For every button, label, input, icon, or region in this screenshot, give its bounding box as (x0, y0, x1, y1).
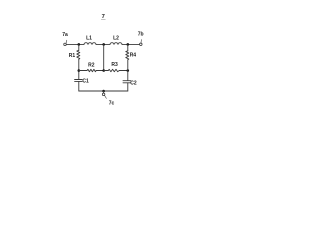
wire node A down to R1 (78, 44, 80, 50)
svg-text:L2: L2 (113, 35, 119, 41)
node C junction (127, 43, 130, 46)
node A junction (78, 43, 81, 46)
wire stub to terminal 7c (103, 91, 105, 93)
node D junction (78, 69, 81, 72)
terminal 7a (62, 32, 68, 38)
wire L1 to L2 (96, 43, 110, 45)
svg-text:R1: R1 (69, 53, 76, 59)
svg-text:C2: C2 (130, 81, 137, 87)
bottom junction (102, 90, 105, 93)
capacitor C2 (130, 81, 137, 87)
resistor R4 (130, 53, 137, 59)
wire R3 to node G (119, 70, 128, 72)
svg-text:R4: R4 (130, 53, 137, 59)
inductor L1 (86, 35, 92, 41)
node B junction (102, 43, 105, 46)
resistor R3 (111, 62, 118, 68)
svg-text:C1: C1 (82, 78, 89, 84)
figure label 7 (102, 14, 105, 20)
wire node D to R2 (79, 70, 87, 72)
wire L2 to 7b (122, 43, 140, 45)
wire R1 to node D (78, 59, 80, 79)
svg-text:7b: 7b (138, 31, 144, 37)
wire R2 to node F (96, 70, 104, 72)
bottom rail wire (79, 90, 128, 92)
wire C2 to bottom rail (127, 83, 129, 91)
wire R4 to node G (127, 60, 129, 81)
inductor L2 (113, 35, 119, 41)
svg-text:7a: 7a (62, 32, 68, 38)
svg-text:R2: R2 (88, 62, 95, 68)
wire 7a to L1 (66, 43, 84, 45)
node G junction (127, 69, 130, 72)
wire C1 to bottom rail (78, 81, 80, 91)
resistor R1 (69, 53, 76, 59)
terminal 7b (138, 31, 144, 37)
capacitor C1 (82, 78, 89, 84)
svg-text:7c: 7c (109, 101, 115, 107)
wire node C down to R4 (127, 44, 129, 50)
svg-text:L1: L1 (86, 35, 92, 41)
resistor R2 (88, 62, 95, 68)
terminal 7c (102, 93, 105, 96)
svg-text:R3: R3 (111, 62, 118, 68)
wire node F to R3 (104, 70, 109, 72)
wire node B down to node F (103, 44, 105, 70)
node F junction (102, 69, 105, 72)
